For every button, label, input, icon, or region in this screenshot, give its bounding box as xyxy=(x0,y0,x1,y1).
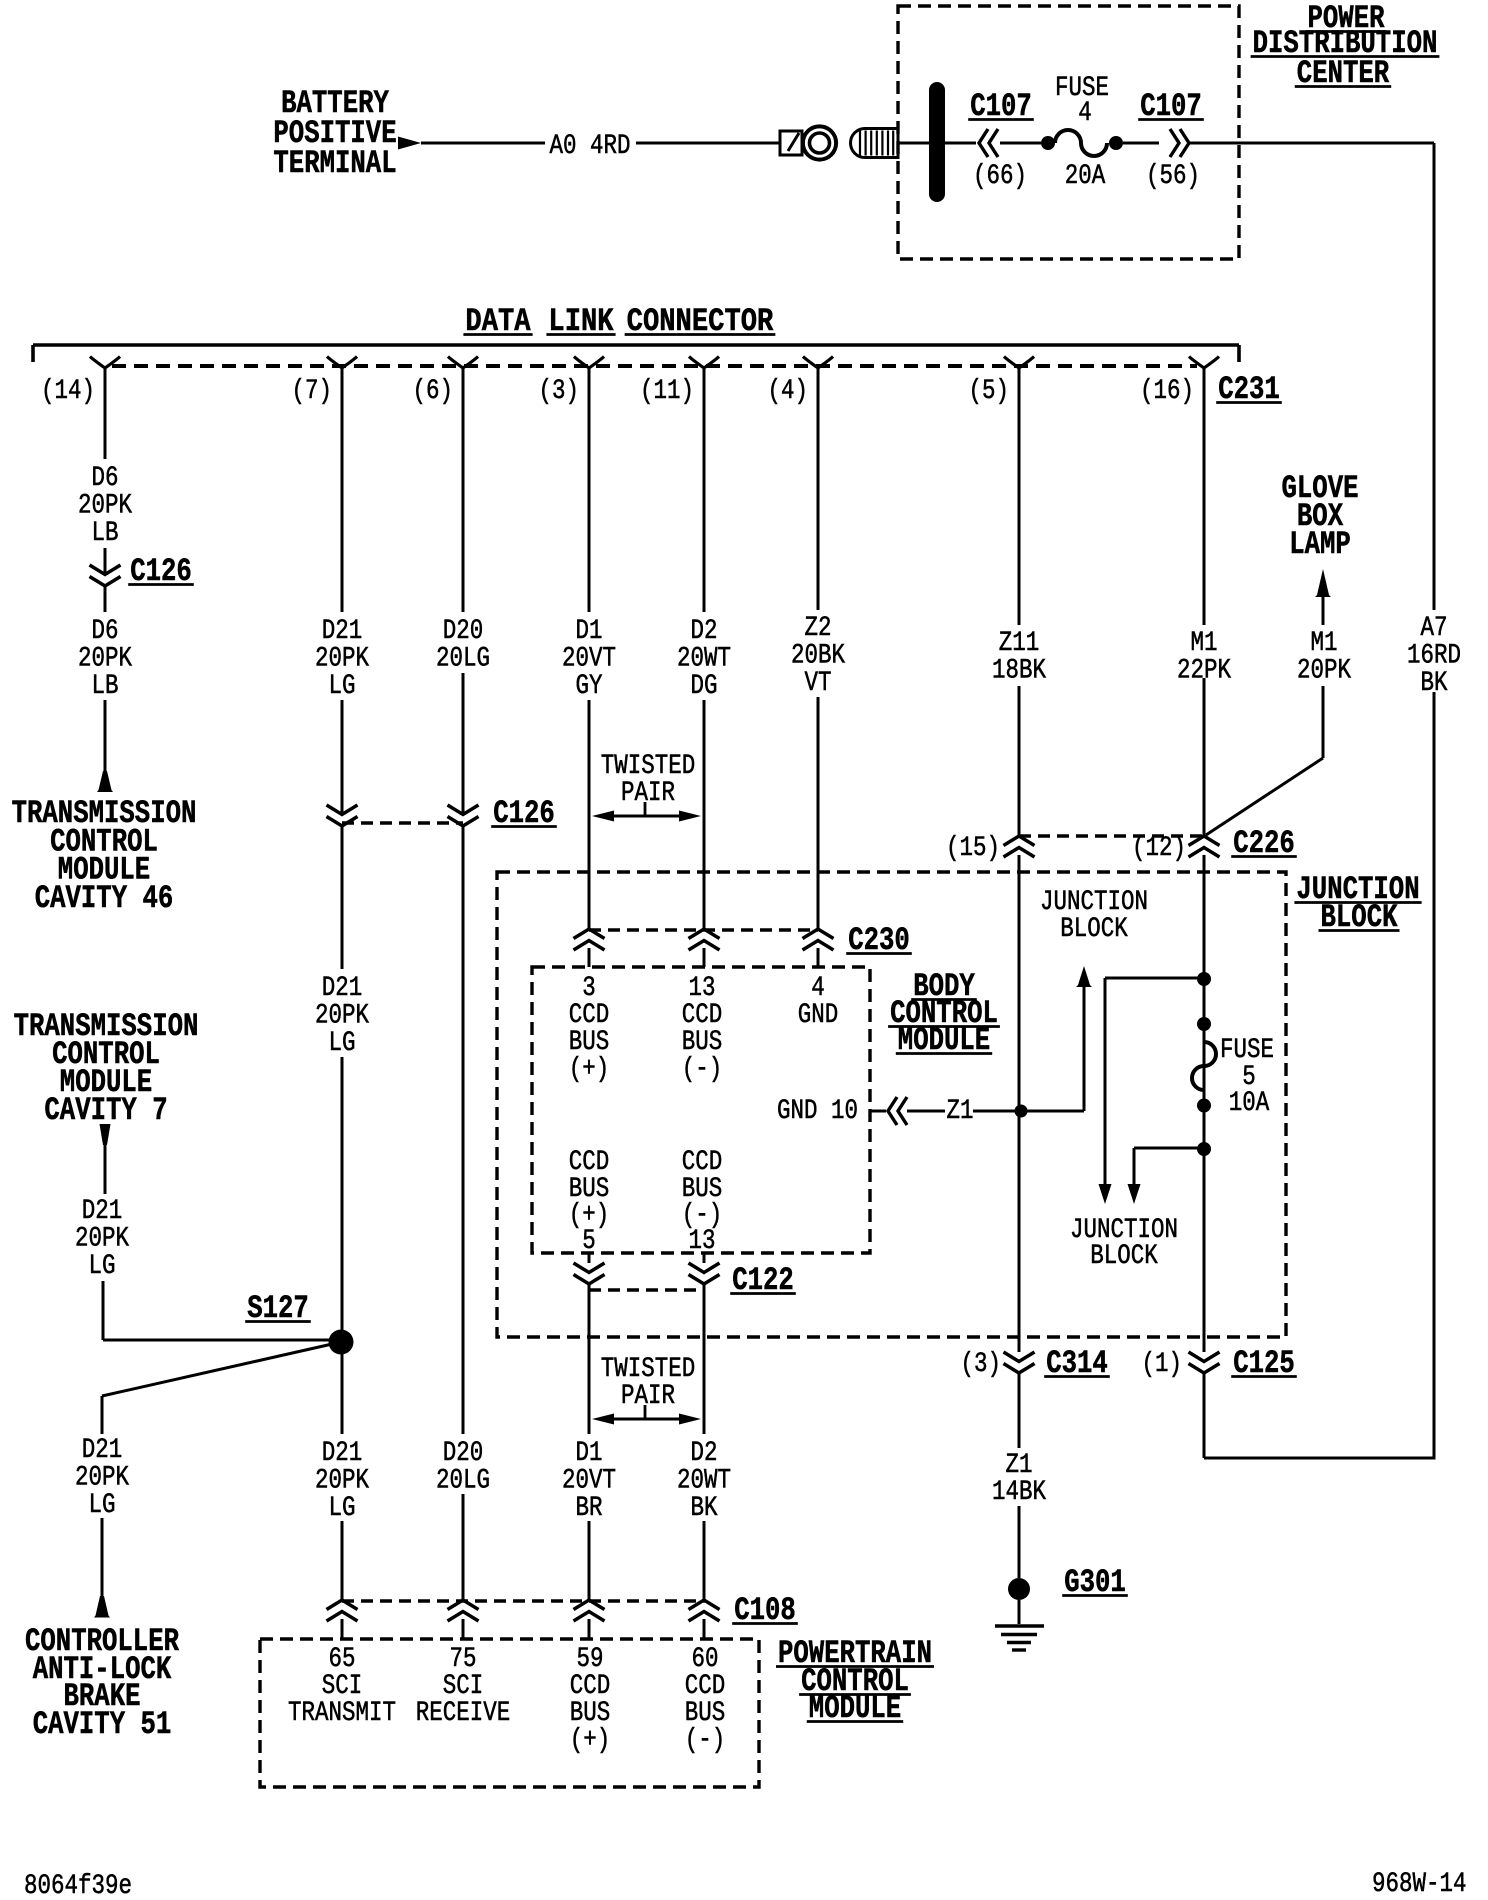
svg-text:20PK: 20PK xyxy=(315,1001,369,1032)
svg-text:(5): (5) xyxy=(969,376,1010,407)
svg-text:20PK: 20PK xyxy=(315,1466,369,1497)
svg-text:D2: D2 xyxy=(691,1438,718,1469)
svg-text:A0 4RD: A0 4RD xyxy=(550,131,631,162)
svg-text:LG: LG xyxy=(329,671,356,702)
svg-text:Z2: Z2 xyxy=(805,613,832,644)
svg-text:20PK: 20PK xyxy=(315,644,369,675)
svg-text:GY: GY xyxy=(576,671,603,702)
svg-text:(3): (3) xyxy=(961,1349,1002,1380)
svg-text:(1): (1) xyxy=(1142,1349,1183,1380)
svg-text:(6): (6) xyxy=(413,376,454,407)
svg-text:M1: M1 xyxy=(1191,628,1218,659)
svg-text:RECEIVE: RECEIVE xyxy=(416,1698,511,1729)
svg-text:LB: LB xyxy=(92,671,119,702)
svg-text:D21: D21 xyxy=(322,1438,363,1469)
svg-text:5: 5 xyxy=(582,1226,596,1257)
svg-text:13: 13 xyxy=(689,1226,716,1257)
svg-text:CAVITY 46: CAVITY 46 xyxy=(35,880,174,917)
svg-text:D21: D21 xyxy=(322,616,363,647)
svg-text:DG: DG xyxy=(691,671,718,702)
svg-text:TRANSMIT: TRANSMIT xyxy=(288,1698,396,1729)
svg-text:D20: D20 xyxy=(443,1438,484,1469)
svg-text:D1: D1 xyxy=(576,616,603,647)
svg-text:CAVITY 51: CAVITY 51 xyxy=(33,1706,172,1743)
svg-text:BLOCK: BLOCK xyxy=(1060,914,1128,945)
svg-text:TERMINAL: TERMINAL xyxy=(273,145,396,182)
svg-text:D21: D21 xyxy=(82,1196,123,1227)
svg-text:20WT: 20WT xyxy=(677,644,731,675)
svg-text:PAIR: PAIR xyxy=(621,778,675,809)
svg-text:(+): (+) xyxy=(569,1054,610,1085)
svg-text:D2: D2 xyxy=(691,616,718,647)
svg-text:20PK: 20PK xyxy=(78,644,132,675)
svg-text:LG: LG xyxy=(329,1028,356,1059)
svg-text:18BK: 18BK xyxy=(992,656,1046,687)
svg-text:20PK: 20PK xyxy=(78,491,132,522)
svg-text:(56): (56) xyxy=(1146,161,1200,192)
svg-text:8064f39e: 8064f39e xyxy=(24,1871,132,1900)
svg-text:(66): (66) xyxy=(973,161,1027,192)
svg-text:D21: D21 xyxy=(82,1435,123,1466)
svg-text:Z1: Z1 xyxy=(947,1096,974,1127)
svg-text:(15): (15) xyxy=(946,833,1000,864)
svg-text:GND: GND xyxy=(798,1000,839,1031)
svg-text:20A: 20A xyxy=(1065,161,1106,192)
svg-text:D6: D6 xyxy=(92,463,119,494)
svg-text:(16): (16) xyxy=(1140,376,1194,407)
svg-text:D20: D20 xyxy=(443,616,484,647)
svg-text:D21: D21 xyxy=(322,973,363,1004)
svg-text:LG: LG xyxy=(89,1490,116,1521)
svg-text:BLOCK: BLOCK xyxy=(1090,1241,1158,1272)
svg-text:LB: LB xyxy=(92,518,119,549)
svg-text:20BK: 20BK xyxy=(791,641,845,672)
svg-text:GND 10: GND 10 xyxy=(777,1096,858,1127)
svg-text:LG: LG xyxy=(329,1493,356,1524)
svg-text:BR: BR xyxy=(576,1493,603,1524)
svg-text:20LG: 20LG xyxy=(436,1466,490,1497)
svg-text:20LG: 20LG xyxy=(436,644,490,675)
svg-text:BK: BK xyxy=(691,1493,718,1524)
svg-text:(3): (3) xyxy=(539,376,580,407)
svg-text:LG: LG xyxy=(89,1251,116,1282)
svg-text:D6: D6 xyxy=(92,616,119,647)
svg-text:M1: M1 xyxy=(1311,628,1338,659)
svg-text:(4): (4) xyxy=(768,376,809,407)
svg-text:(-): (-) xyxy=(685,1725,726,1756)
svg-text:Z11: Z11 xyxy=(999,628,1040,659)
svg-text:16RD: 16RD xyxy=(1407,641,1461,672)
svg-text:(14): (14) xyxy=(41,376,95,407)
svg-text:CAVITY 7: CAVITY 7 xyxy=(44,1092,167,1129)
svg-text:20PK: 20PK xyxy=(1297,656,1351,687)
svg-text:(+): (+) xyxy=(570,1725,611,1756)
svg-text:20VT: 20VT xyxy=(562,1466,616,1497)
svg-text:(7): (7) xyxy=(292,376,333,407)
svg-text:D1: D1 xyxy=(576,1438,603,1469)
svg-text:968W-14: 968W-14 xyxy=(1372,1869,1467,1900)
svg-text:(11): (11) xyxy=(640,376,694,407)
svg-text:LAMP: LAMP xyxy=(1289,526,1351,563)
svg-text:4: 4 xyxy=(1078,98,1092,129)
svg-text:(-): (-) xyxy=(682,1054,723,1085)
svg-text:10A: 10A xyxy=(1229,1088,1270,1119)
svg-text:A7: A7 xyxy=(1421,613,1448,644)
svg-text:(12): (12) xyxy=(1132,833,1186,864)
svg-text:20WT: 20WT xyxy=(677,1466,731,1497)
svg-text:20PK: 20PK xyxy=(75,1463,129,1494)
svg-text:14BK: 14BK xyxy=(992,1477,1046,1508)
svg-text:20PK: 20PK xyxy=(75,1224,129,1255)
svg-text:PAIR: PAIR xyxy=(621,1381,675,1412)
svg-text:VT: VT xyxy=(805,668,832,699)
svg-text:20VT: 20VT xyxy=(562,644,616,675)
